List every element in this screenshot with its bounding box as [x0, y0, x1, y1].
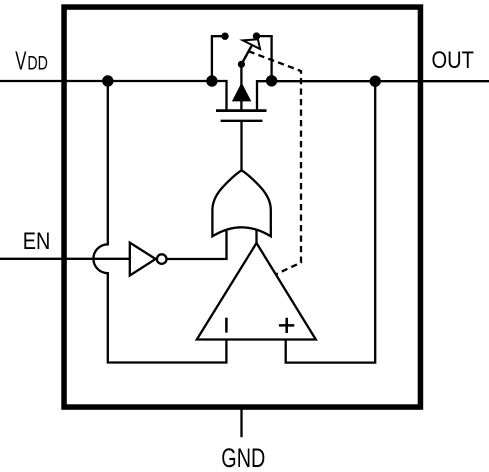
VDD pin label	[15, 47, 48, 75]
right throw contact dot	[253, 32, 260, 39]
comparator plus input mark	[279, 318, 294, 333]
svg-text:V: V	[15, 47, 26, 75]
body switch arm	[241, 46, 251, 65]
wire VDD sense with hop to comparator minus input	[93, 81, 226, 363]
IC boundary box	[64, 7, 420, 407]
svg-text:DD: DD	[27, 53, 48, 75]
comparator minus input mark	[225, 318, 228, 333]
junction dot OUT rail at switch	[266, 75, 277, 86]
dashed control line comparator to body switch	[249, 51, 301, 274]
comparator U2	[197, 243, 316, 340]
wire comparator plus input to OUT sense	[286, 81, 376, 362]
OR gate	[212, 170, 270, 236]
junction dot VDD rail at switch	[206, 75, 217, 86]
wire FET body to switch pole	[240, 64, 242, 110]
svg-text:OUT: OUT	[432, 47, 475, 74]
wire right throw to OUT rail	[257, 36, 272, 81]
svg-text:EN: EN	[23, 228, 51, 255]
junction dot VDD rail left	[102, 75, 113, 86]
wire left throw to VDD rail	[212, 36, 225, 81]
wire inverter output to OR left input	[167, 231, 227, 259]
FET body arrow	[233, 84, 251, 101]
wire OR right input to comparator output	[255, 230, 257, 244]
junction dot OUT rail right	[370, 76, 381, 87]
wire EN input	[0, 258, 130, 260]
pass FET gate bar	[221, 120, 263, 122]
inverter bubble	[157, 254, 167, 264]
wire FET gate to OR output	[240, 121, 242, 171]
svg-text:GND: GND	[221, 443, 265, 472]
body switch arrowhead	[243, 39, 260, 49]
left throw contact dot	[221, 33, 228, 40]
wire FET drain to OUT rail	[257, 81, 489, 110]
wire VDD rail to FET source	[0, 81, 227, 111]
GND stub	[240, 409, 242, 437]
switch pole dot	[238, 61, 245, 68]
inverter U1	[130, 243, 156, 276]
pass FET channel bar	[216, 109, 267, 112]
